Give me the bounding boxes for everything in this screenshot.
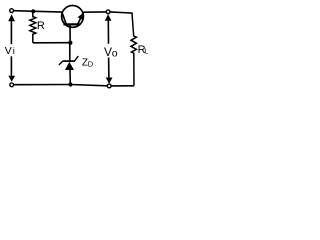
transistor Q1 base lead <box>69 25 71 43</box>
Vo arrow up shaft <box>107 20 109 44</box>
transistor Q1 collector line <box>62 12 66 24</box>
terminal: Vi+ top-left open circle <box>10 9 14 13</box>
terminal: Vi- bottom-left open circle <box>10 83 14 87</box>
svg-text:o: o <box>112 48 118 60</box>
zener diode ZD left tail <box>59 61 63 65</box>
svg-text:R: R <box>37 20 45 32</box>
Vo arrow down head <box>106 78 113 84</box>
wire: bottom rail left segment <box>14 84 71 86</box>
node: base junction dot <box>68 41 72 45</box>
wire: bottom rail middle segment <box>71 85 108 86</box>
wire: bottom rail right segment to RL <box>112 85 135 87</box>
wire: top rail from Vo terminal to RL corner <box>110 12 132 14</box>
Vi source arrow down head <box>8 76 15 82</box>
wire: top rail from Vi+ terminal to transistor collector <box>14 11 62 12</box>
Vo arrow down shaft <box>108 58 110 79</box>
Vi source arrow down shaft <box>10 56 12 77</box>
wire: R bottom to base junction <box>33 42 71 44</box>
transistor Q1 base bar <box>63 23 80 25</box>
terminal: Vo- bottom open circle <box>107 84 111 88</box>
Vi source arrow up head <box>8 14 15 21</box>
transistor Q1 emitter line <box>78 12 84 24</box>
zener diode ZD anode triangle (pointing up) <box>65 62 74 70</box>
wire: top rail from emitter to Vo terminal <box>83 11 106 13</box>
resistor RL (right branch with zigzag) <box>131 13 136 86</box>
svg-text:i: i <box>13 46 15 57</box>
transistor Q1 emitter arrow <box>78 13 84 20</box>
svg-text:V: V <box>5 45 12 57</box>
terminal: Vo+ top open circle <box>106 10 110 14</box>
transistor Q1 circle <box>62 6 84 28</box>
zener diode ZD cathode bar <box>62 60 75 62</box>
Vi source arrow up shaft <box>10 20 12 44</box>
resistor R (zigzag) <box>30 11 36 42</box>
zener diode ZD top lead <box>69 43 71 61</box>
zener diode ZD bottom lead <box>69 70 71 85</box>
zener diode ZD right tail <box>75 56 79 61</box>
svg-text:D: D <box>88 60 94 69</box>
Vo arrow up head <box>105 14 112 20</box>
node: zener-rail junction dot <box>68 82 72 86</box>
node: junction dot at R top on rail <box>31 9 35 13</box>
svg-text:L: L <box>144 47 148 56</box>
